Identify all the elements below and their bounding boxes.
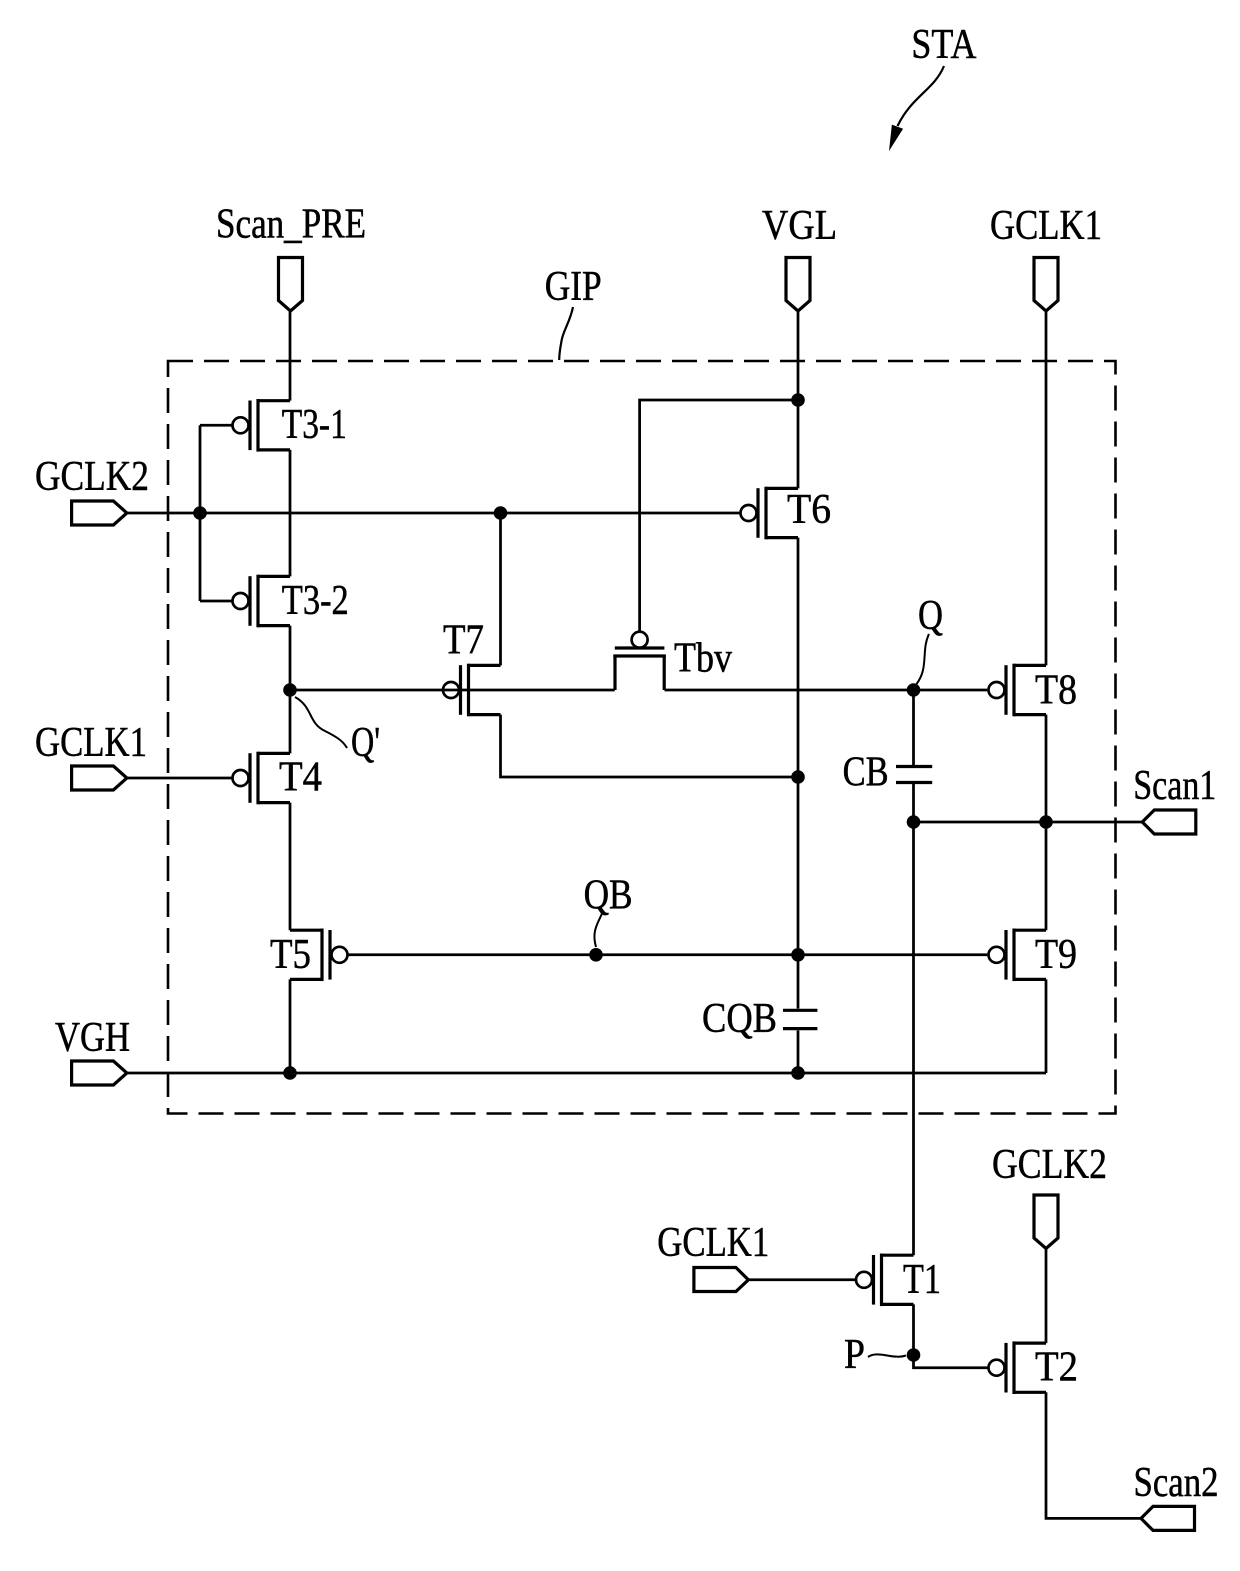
node T5-VGH junction xyxy=(283,1066,297,1080)
GIP dashed block boundary xyxy=(168,361,1116,1114)
svg-text:T3-2: T3-2 xyxy=(282,578,349,624)
svg-text:GIP: GIP xyxy=(545,264,602,310)
wire VGL down to node VGL xyxy=(797,311,800,488)
label Q' with leader xyxy=(295,697,380,766)
transistor T8 xyxy=(989,664,1078,717)
terminal GCLK1 left xyxy=(35,720,147,790)
node CQB-VGH junction xyxy=(791,1066,805,1080)
label STA xyxy=(911,22,977,68)
wire VGH rail xyxy=(127,1072,1046,1075)
svg-text:T1: T1 xyxy=(903,1257,941,1303)
node T7-VGL junction xyxy=(791,770,805,784)
svg-text:T5: T5 xyxy=(270,932,311,978)
svg-text:Scan2: Scan2 xyxy=(1134,1460,1219,1506)
wire T7 source to VGL column xyxy=(501,715,799,777)
label P with leader xyxy=(844,1332,906,1378)
transistor T5 (gate on right) xyxy=(270,929,348,982)
wire QB line T5 gate to T9 gate xyxy=(348,953,988,956)
wire T2 source to Scan2 xyxy=(1046,1392,1141,1518)
transistor Tbv xyxy=(613,632,732,690)
wire T3-2 source to node Q' xyxy=(289,626,292,754)
capacitor CQB xyxy=(702,996,817,1042)
wire CB to Scan1 node, down to T1 xyxy=(912,783,915,1256)
terminal GCLK1 bottom xyxy=(657,1220,769,1292)
svg-text:P: P xyxy=(844,1332,865,1378)
wire Tbv right terminal to T8 gate xyxy=(665,689,988,692)
wire T9 source to VGH rail xyxy=(1045,979,1048,1073)
transistor T1 xyxy=(856,1254,941,1307)
node QB-CQB junction xyxy=(791,948,805,962)
wire T1 source to node P and T2 gate xyxy=(914,1304,989,1367)
svg-text:GCLK2: GCLK2 xyxy=(35,454,149,500)
wire Tbv gate to VGL node xyxy=(640,400,798,632)
terminal GCLK2 bottom xyxy=(992,1142,1107,1249)
wire T3-1 source to T3-2 drain xyxy=(289,450,292,577)
wire CQB to VGH rail xyxy=(797,1030,800,1073)
svg-text:GCLK1: GCLK1 xyxy=(657,1220,769,1266)
svg-text:T4: T4 xyxy=(279,755,322,801)
STA leader arrow xyxy=(889,66,944,151)
svg-text:Scan1: Scan1 xyxy=(1133,763,1216,809)
terminal Scan2 xyxy=(1134,1460,1219,1530)
terminal VGL xyxy=(762,203,837,311)
capacitor CB xyxy=(843,750,933,796)
terminal Scan_PRE xyxy=(216,202,366,311)
svg-text:QB: QB xyxy=(584,873,633,919)
wire GCLK1 down to T8 xyxy=(1045,311,1048,665)
label Q with leader xyxy=(917,593,944,684)
svg-text:GCLK1: GCLK1 xyxy=(35,720,147,766)
label GIP xyxy=(545,264,602,310)
wire node Q down to CB xyxy=(912,690,915,767)
svg-text:T3-1: T3-1 xyxy=(282,402,347,448)
node Q xyxy=(907,683,921,697)
svg-text:T8: T8 xyxy=(1035,668,1077,714)
label QB with leader xyxy=(584,873,633,947)
svg-text:GCLK1: GCLK1 xyxy=(990,203,1102,249)
svg-text:STA: STA xyxy=(911,22,977,68)
GIP leader line xyxy=(559,307,573,360)
terminal GCLK2 left xyxy=(35,454,149,525)
wire GCLK2 to T2 drain xyxy=(1045,1249,1048,1344)
transistor T3-2 xyxy=(233,575,349,628)
svg-text:T7: T7 xyxy=(443,618,484,664)
svg-text:VGL: VGL xyxy=(762,203,837,249)
transistor T7 xyxy=(443,618,501,717)
wire Scan1 xyxy=(914,821,1143,824)
transistor T2 xyxy=(989,1341,1079,1394)
wire T7 drain up to GCLK2 line xyxy=(499,513,502,665)
transistor T3-1 xyxy=(233,399,347,452)
svg-text:Q: Q xyxy=(918,593,943,639)
wire GCLK1 to T4 gate xyxy=(127,777,232,780)
node Scan1-T8/T9 junction xyxy=(1039,815,1053,829)
svg-text:Tbv: Tbv xyxy=(674,636,732,682)
wire T5 source to VGH rail xyxy=(289,979,292,1073)
svg-text:T2: T2 xyxy=(1035,1345,1078,1391)
transistor T4 xyxy=(233,752,323,805)
node T7 drain junction xyxy=(494,506,508,520)
terminal Scan1 xyxy=(1133,763,1216,834)
node QB xyxy=(589,948,603,962)
svg-text:CQB: CQB xyxy=(702,996,777,1042)
wire node Q' to Tbv left terminal xyxy=(290,689,615,692)
wire GCLK2 feed to T3-1/T3-2 gates xyxy=(200,425,233,601)
svg-text:Scan_PRE: Scan_PRE xyxy=(216,202,366,248)
node P xyxy=(907,1348,921,1362)
svg-text:T9: T9 xyxy=(1035,932,1077,978)
wire T6 source down VGL column xyxy=(797,538,800,1009)
transistor T9 xyxy=(989,929,1078,982)
svg-text:T6: T6 xyxy=(787,487,831,533)
node CB-Scan1 junction xyxy=(907,815,921,829)
wire Scan_PRE to T3-1 xyxy=(289,311,292,401)
svg-text:Q': Q' xyxy=(351,720,380,766)
wire T8 source to Scan1 node xyxy=(1045,715,1048,931)
wire GCLK2 line to T6 gate xyxy=(127,512,740,515)
node Q' xyxy=(283,683,297,697)
svg-text:VGH: VGH xyxy=(55,1015,130,1061)
wire T4 source to T5 drain xyxy=(289,803,292,931)
node GCLK2 junction xyxy=(193,506,207,520)
transistor T6 xyxy=(741,487,832,540)
svg-text:CB: CB xyxy=(843,750,889,796)
wire GCLK1 to T1 gate xyxy=(748,1278,855,1281)
svg-text:GCLK2: GCLK2 xyxy=(992,1142,1107,1188)
node VGL junction xyxy=(791,393,805,407)
terminal GCLK1 top xyxy=(990,203,1102,311)
terminal VGH xyxy=(55,1015,130,1085)
